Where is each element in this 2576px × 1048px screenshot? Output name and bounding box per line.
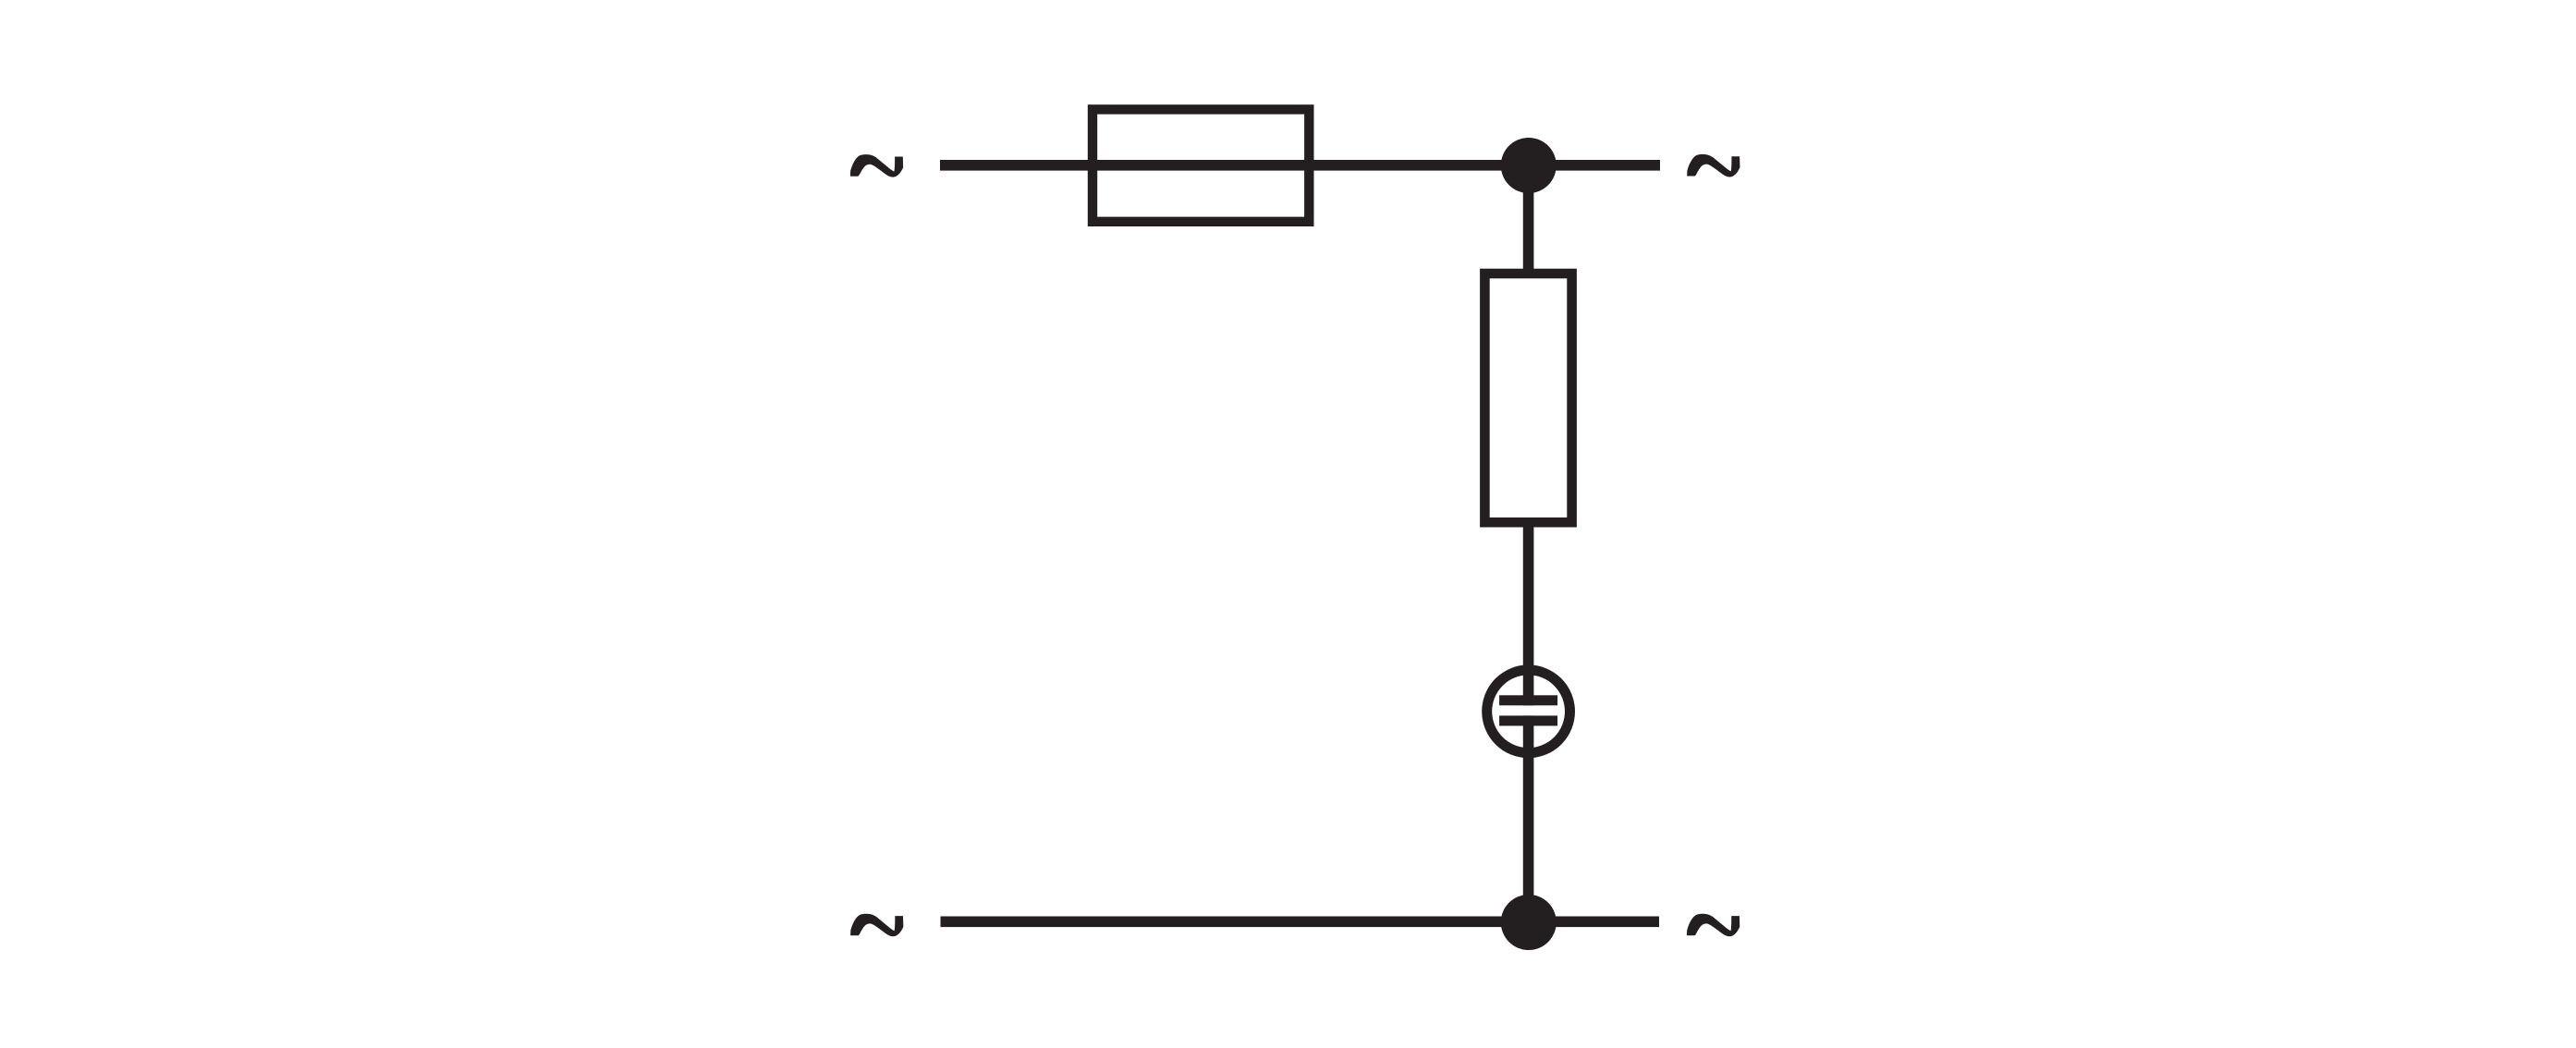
ac source tilde bottom-right (N line out)	[1687, 914, 1740, 937]
ac source tilde bottom-left (N line)	[850, 914, 903, 937]
surge arrester top electrode bar	[1499, 695, 1557, 705]
ac source tilde top-right (L line out)	[1687, 154, 1740, 177]
wire bottom N line	[941, 917, 1660, 928]
node junction bottom	[1501, 895, 1557, 950]
ac source tilde top-left (L line)	[850, 154, 903, 177]
resistor R1 (varistor element)	[1484, 274, 1571, 522]
fuse F1	[1093, 109, 1309, 221]
wire vertical from resistor to arrester top electrode	[1523, 522, 1534, 705]
surge arrester gas discharge tube: circle	[1487, 670, 1570, 753]
wire top L line	[940, 160, 1660, 171]
surge arrester bottom electrode bar	[1499, 715, 1557, 725]
node junction top	[1501, 138, 1557, 193]
wire vertical from top node to resistor	[1523, 165, 1534, 274]
wire vertical from arrester bottom electrode to bottom node	[1523, 715, 1534, 922]
